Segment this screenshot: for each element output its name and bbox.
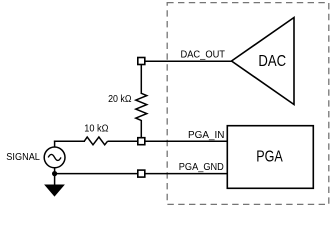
wire: PGA_IN node to PGA block [144,140,228,142]
svg-text:DAC: DAC [258,53,286,70]
wire: resistor 20k to PGA_IN node [140,120,142,139]
chip boundary (dashed box) [167,3,329,205]
svg-text:PGA_GND: PGA_GND [179,162,224,173]
svg-text:PGA: PGA [256,148,283,165]
resistor 20 kΩ (vertical zigzag) [136,93,147,120]
wire: SIGNAL to resistor R 10k [54,140,85,142]
svg-text:10 kΩ: 10 kΩ [84,124,109,135]
wire: SIGNAL top stub to horizontal wire [54,141,56,148]
svg-text:DAC_OUT: DAC_OUT [181,50,226,61]
wire: DAC_OUT node to DAC apex [144,60,232,62]
source SIGNAL (sine source) [44,147,65,168]
ground [45,185,64,196]
wire: resistor 10k to PGA_IN node [108,140,139,142]
junction dot [52,171,57,176]
svg-text:SIGNAL: SIGNAL [6,152,40,163]
node PGA_GND (terminal pad) [138,170,145,177]
node DAC_OUT (terminal pad) [138,58,145,65]
resistor 10 kΩ (horizontal zigzag) [84,137,107,145]
PGA block [227,126,313,189]
svg-text:PGA_IN: PGA_IN [188,130,225,141]
svg-text:20 kΩ: 20 kΩ [108,94,132,105]
wire: junction to PGA_GND node [55,173,139,175]
wire: PGA_GND node to PGA block [144,173,228,175]
op-amp U1 DAC (triangle) [232,18,295,105]
node PGA_IN (terminal pad) [138,138,145,145]
wire: SIGNAL bottom to junction [54,168,56,174]
wire: ground stub [54,174,56,186]
wire: DAC_OUT node down to resistor R 20k [140,64,142,94]
